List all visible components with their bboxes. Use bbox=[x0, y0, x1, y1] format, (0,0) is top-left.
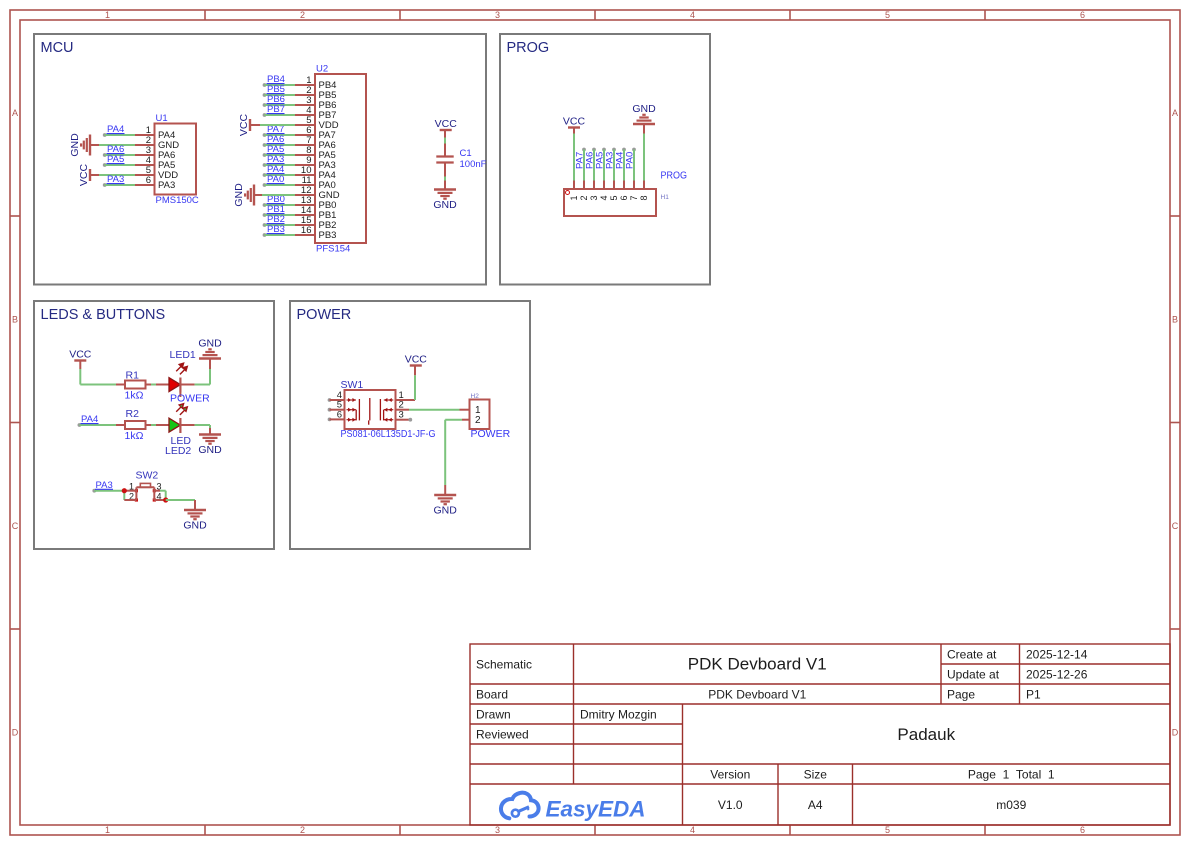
SW1 inner contacts bbox=[347, 398, 394, 425]
ground (H2 pin 2) bbox=[434, 494, 456, 496]
ground (row R2) bbox=[199, 433, 221, 435]
svg-text:GND: GND bbox=[434, 505, 458, 517]
U2 pin 4 PB7 bbox=[295, 105, 336, 121]
svg-text:Size: Size bbox=[804, 767, 828, 781]
svg-text:Schematic: Schematic bbox=[476, 658, 532, 672]
section box MCU bbox=[34, 34, 486, 285]
svg-text:C: C bbox=[1172, 521, 1179, 531]
wire + net label PB0 (U2 pin 13) bbox=[263, 194, 295, 207]
svg-text:Create at: Create at bbox=[947, 647, 997, 661]
svg-text:Padauk: Padauk bbox=[897, 725, 955, 744]
svg-text:Board: Board bbox=[476, 687, 508, 701]
U1 pin 2 GND bbox=[135, 135, 179, 151]
wire LED2 to GND bbox=[180, 424, 194, 426]
U2 pin 3 PB6 bbox=[295, 95, 336, 111]
svg-text:A: A bbox=[12, 108, 18, 118]
svg-text:C: C bbox=[12, 521, 19, 531]
svg-text:2: 2 bbox=[300, 10, 305, 20]
power VCC (C1 top) bbox=[435, 118, 458, 139]
svg-text:Update at: Update at bbox=[947, 667, 1000, 681]
svg-text:B: B bbox=[12, 315, 18, 325]
svg-text:4: 4 bbox=[690, 825, 695, 835]
svg-text:Dmitry Mozgin: Dmitry Mozgin bbox=[580, 707, 657, 721]
svg-text:D: D bbox=[12, 728, 19, 738]
ground (row R1) bbox=[199, 357, 221, 359]
U1 pin 6 PA3 bbox=[135, 175, 175, 191]
H2 pin 1 bbox=[460, 409, 470, 411]
svg-text:1kΩ: 1kΩ bbox=[125, 390, 144, 402]
wire + net label PA6 (U1 pin 3) bbox=[103, 144, 135, 157]
section box PROG bbox=[500, 34, 710, 285]
svg-text:SW2: SW2 bbox=[136, 470, 159, 482]
H1 pin 1 bbox=[569, 181, 579, 201]
svg-text:2: 2 bbox=[300, 825, 305, 835]
svg-text:2: 2 bbox=[475, 415, 481, 426]
svg-text:GND: GND bbox=[69, 133, 81, 157]
svg-text:EasyEDA: EasyEDA bbox=[546, 797, 646, 822]
svg-text:5: 5 bbox=[885, 825, 890, 835]
svg-text:GND: GND bbox=[183, 520, 207, 532]
svg-text:4: 4 bbox=[599, 195, 609, 200]
U2 pin 8 PA5 bbox=[295, 145, 336, 161]
svg-text:PDK Devboard V1: PDK Devboard V1 bbox=[688, 655, 827, 674]
wire + net label PA0 (H1 pin 7) bbox=[625, 148, 636, 181]
U2 pin 15 PB2 bbox=[295, 215, 336, 231]
LED LED2 (green) bbox=[165, 418, 191, 457]
header H2 (POWER connector) body bbox=[470, 393, 511, 440]
svg-text:PA3: PA3 bbox=[158, 180, 175, 191]
svg-text:1: 1 bbox=[105, 10, 110, 20]
SW1 pin 4 bbox=[328, 390, 345, 402]
svg-text:Page: Page bbox=[947, 687, 975, 701]
svg-text:GND: GND bbox=[233, 183, 245, 207]
switch SW1 PS081-06L135D1-JF-G body bbox=[341, 379, 436, 440]
svg-text:PMS150C: PMS150C bbox=[156, 195, 199, 206]
wire + net label PA6 (H1 pin 3) bbox=[585, 148, 596, 181]
H1 pin 2 bbox=[579, 181, 589, 201]
wire + net label PA3 (U1 pin 6) bbox=[103, 174, 135, 187]
svg-text:6: 6 bbox=[1080, 10, 1085, 20]
U2 pin 16 PB3 bbox=[295, 225, 336, 241]
U2 pin 7 PA6 bbox=[295, 135, 336, 151]
junction SW2 left bbox=[122, 488, 137, 500]
svg-text:VCC: VCC bbox=[78, 163, 90, 186]
U2 pin 13 PB0 bbox=[295, 195, 336, 211]
svg-text:GND: GND bbox=[433, 199, 457, 211]
wire R2 to LED2 bbox=[146, 424, 152, 426]
wire + net label PB4 (U2 pin 1) bbox=[263, 74, 295, 87]
svg-text:5: 5 bbox=[885, 10, 890, 20]
svg-text:GND: GND bbox=[198, 338, 222, 350]
U1 pin 4 PA5 bbox=[135, 155, 175, 171]
wire SW2 to GND bbox=[166, 499, 195, 501]
wire + net label PA5 (U1 pin 4) bbox=[103, 154, 135, 167]
svg-text:m039: m039 bbox=[996, 798, 1026, 812]
svg-text:H1: H1 bbox=[661, 194, 670, 201]
svg-text:1: 1 bbox=[569, 195, 579, 200]
svg-text:R1: R1 bbox=[126, 370, 140, 382]
wire + net label PA6 (U2 pin 7) bbox=[263, 134, 295, 147]
wire + net label PB2 (U2 pin 15) bbox=[263, 214, 295, 227]
svg-text:3: 3 bbox=[589, 195, 599, 200]
svg-text:4: 4 bbox=[690, 10, 695, 20]
SW1 pin 3 (open) bbox=[396, 410, 413, 422]
svg-text:Version: Version bbox=[710, 767, 750, 781]
svg-text:SW1: SW1 bbox=[341, 379, 364, 391]
svg-text:P1: P1 bbox=[1026, 687, 1041, 701]
svg-text:R2: R2 bbox=[126, 408, 140, 420]
U2 pin 6 PA7 bbox=[295, 125, 336, 141]
svg-text:VCC: VCC bbox=[563, 116, 586, 128]
wire + net label PB3 (U2 pin 16) bbox=[263, 224, 295, 237]
LED1 light arrows bbox=[176, 363, 187, 374]
U2 pin 10 PA4 bbox=[295, 165, 336, 181]
SW1 pin 2 wire to H2 bbox=[396, 400, 460, 411]
EasyEDA logo bbox=[501, 793, 646, 822]
ground (C1 bottom) bbox=[433, 181, 457, 212]
svg-text:5: 5 bbox=[609, 195, 619, 200]
U2 pin 14 PB1 bbox=[295, 205, 336, 221]
svg-text:6: 6 bbox=[1080, 825, 1085, 835]
svg-text:6: 6 bbox=[337, 409, 342, 420]
U2 pin 1 PB4 bbox=[295, 75, 336, 91]
wire + net label PA3 (H1 pin 5) bbox=[605, 148, 616, 181]
svg-text:VCC: VCC bbox=[435, 118, 458, 130]
U2 pin 11 PA0 bbox=[295, 175, 336, 191]
svg-text:GND: GND bbox=[632, 103, 656, 115]
wire + net label PB6 (U2 pin 3) bbox=[263, 94, 295, 107]
wire VCC to C1 bbox=[444, 138, 446, 144]
svg-text:H2: H2 bbox=[471, 393, 480, 400]
SW1 pin 1 wire to VCC bbox=[396, 366, 416, 402]
svg-text:2: 2 bbox=[579, 195, 589, 200]
U2 pin 9 PA3 bbox=[295, 155, 336, 171]
wire + net label PA4 (H1 pin 6) bbox=[615, 148, 626, 181]
svg-text:2025-12-26: 2025-12-26 bbox=[1026, 667, 1088, 681]
resistor R2 1k bbox=[125, 408, 146, 442]
wire + net label PA4 (row R2) bbox=[78, 414, 126, 427]
svg-text:PB3: PB3 bbox=[319, 230, 337, 241]
svg-text:A: A bbox=[1172, 108, 1178, 118]
push button SW2 bbox=[129, 470, 162, 502]
resistor R1 1k bbox=[125, 370, 146, 402]
svg-text:LED1: LED1 bbox=[170, 349, 196, 361]
wire + net label PA4 (U1 pin 1) bbox=[103, 124, 135, 137]
ground (U2 pin 12) bbox=[233, 183, 295, 207]
svg-text:U2: U2 bbox=[316, 64, 328, 75]
svg-text:PS081-06L135D1-JF-G: PS081-06L135D1-JF-G bbox=[341, 429, 436, 440]
power VCC (SW1 pin 1) bbox=[410, 364, 422, 366]
U2 pin 2 PB5 bbox=[295, 85, 336, 101]
wire LED1 to GND bbox=[180, 384, 194, 386]
power VCC (H1 pin 1) bbox=[563, 116, 586, 181]
svg-text:PA0: PA0 bbox=[625, 152, 636, 169]
U2 pin 12 GND bbox=[295, 185, 340, 201]
SW1 pin 5 bbox=[328, 400, 345, 412]
wire + net label PA3 (SW2) bbox=[92, 480, 124, 493]
H1 pin 3 bbox=[589, 181, 599, 201]
svg-text:100nF: 100nF bbox=[460, 159, 487, 170]
wire + net label PB5 (U2 pin 2) bbox=[263, 84, 295, 97]
svg-text:VCC: VCC bbox=[69, 349, 92, 361]
H1 pin 6 bbox=[619, 181, 629, 201]
wire + net label PA7 (U2 pin 6) bbox=[263, 124, 295, 137]
svg-text:V1.0: V1.0 bbox=[718, 798, 743, 812]
svg-text:6: 6 bbox=[146, 175, 151, 186]
svg-text:VCC: VCC bbox=[238, 113, 250, 136]
svg-text:Drawn: Drawn bbox=[476, 707, 511, 721]
header H1 (PROG connector) body bbox=[564, 171, 687, 217]
svg-text:7: 7 bbox=[629, 195, 639, 200]
IC U1 PMS150C body bbox=[155, 113, 199, 206]
wire + net label PA4 (U2 pin 10) bbox=[263, 164, 295, 177]
power VCC (row R1) bbox=[69, 349, 92, 370]
H1 pin 4 bbox=[599, 181, 609, 201]
U1 pin 1 PA4 bbox=[135, 125, 175, 141]
wire + net label PA5 (U2 pin 8) bbox=[263, 144, 295, 157]
U1 pin 5 VDD bbox=[135, 165, 178, 181]
power VCC (U2 pin 5) bbox=[238, 113, 295, 136]
svg-text:2025-12-14: 2025-12-14 bbox=[1026, 647, 1088, 661]
wire + net label PB7 (U2 pin 4) bbox=[263, 104, 295, 117]
svg-text:8: 8 bbox=[639, 195, 649, 200]
svg-text:PROG: PROG bbox=[661, 171, 688, 182]
svg-text:PDK Devboard V1: PDK Devboard V1 bbox=[708, 687, 806, 701]
wire + net label PA5 (H1 pin 4) bbox=[595, 148, 606, 181]
svg-text:MCU: MCU bbox=[41, 40, 74, 56]
U1 pin 3 PA6 bbox=[135, 145, 175, 161]
ground (SW2) bbox=[184, 509, 206, 511]
wire C1 to GND bbox=[444, 177, 446, 181]
wire + net label PA7 (H1 pin 2) bbox=[575, 148, 586, 181]
H1 pin 7 bbox=[629, 181, 639, 201]
svg-text:LED2: LED2 bbox=[165, 445, 191, 457]
svg-text:VCC: VCC bbox=[405, 354, 428, 366]
svg-text:3: 3 bbox=[495, 825, 500, 835]
U2 pin 5 VDD bbox=[295, 115, 339, 131]
svg-text:Reviewed: Reviewed bbox=[476, 727, 529, 741]
wire VCC to R1 bbox=[79, 369, 81, 385]
svg-text:PROG: PROG bbox=[507, 40, 550, 56]
IC U2 PFS154 body bbox=[315, 64, 366, 255]
wire + net label PA0 (U2 pin 11) bbox=[263, 174, 295, 187]
svg-text:PFS154: PFS154 bbox=[316, 244, 350, 255]
svg-text:B: B bbox=[1172, 315, 1178, 325]
svg-text:GND: GND bbox=[198, 444, 222, 456]
wire + net label PA3 (U2 pin 9) bbox=[263, 154, 295, 167]
H2 pin 2 wire to GND bbox=[445, 420, 469, 495]
svg-text:1kΩ: 1kΩ bbox=[125, 430, 144, 442]
wire R1 to LED1 bbox=[146, 384, 152, 386]
svg-text:POWER: POWER bbox=[170, 393, 210, 405]
svg-text:3: 3 bbox=[399, 410, 404, 421]
section box LEDS & BUTTONS bbox=[34, 301, 274, 549]
power VCC (U1 pin 5) bbox=[78, 163, 135, 186]
capacitor C1 100nF bbox=[436, 144, 486, 177]
svg-text:16: 16 bbox=[301, 225, 312, 236]
wire + net label PB1 (U2 pin 14) bbox=[263, 204, 295, 217]
LED2 light arrows bbox=[176, 404, 187, 415]
H1 pin 8 bbox=[639, 181, 649, 201]
svg-text:6: 6 bbox=[619, 195, 629, 200]
svg-text:1: 1 bbox=[105, 825, 110, 835]
ground (H1 pin 8) bbox=[632, 103, 656, 181]
svg-text:Page 1 Total 1: Page 1 Total 1 bbox=[968, 767, 1055, 781]
svg-text:POWER: POWER bbox=[297, 307, 352, 323]
svg-text:D: D bbox=[1172, 728, 1179, 738]
svg-text:POWER: POWER bbox=[471, 428, 511, 440]
svg-text:3: 3 bbox=[495, 10, 500, 20]
H1 pin 5 bbox=[609, 181, 619, 201]
svg-text:LEDS & BUTTONS: LEDS & BUTTONS bbox=[41, 307, 166, 323]
SW1 pin 6 bbox=[328, 409, 345, 421]
junction SW2 right bbox=[154, 491, 168, 503]
title block bbox=[470, 644, 1170, 825]
svg-text:C1: C1 bbox=[460, 148, 472, 159]
svg-text:A4: A4 bbox=[808, 798, 823, 812]
section box POWER bbox=[290, 301, 530, 549]
ground (U1 pin 2) bbox=[69, 133, 135, 157]
LED LED1 (red) bbox=[169, 349, 210, 405]
title block text bbox=[476, 647, 1088, 812]
svg-text:U1: U1 bbox=[156, 113, 168, 124]
